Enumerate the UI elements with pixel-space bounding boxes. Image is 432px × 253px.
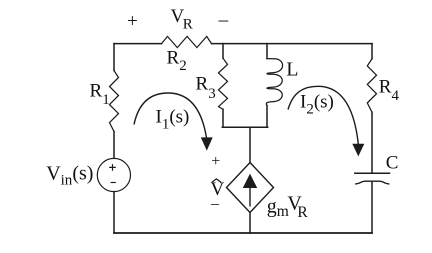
- current arrow I1(s) arc: [134, 93, 207, 139]
- wire bottom: [114, 232, 372, 234]
- resistor R1: [110, 71, 119, 132]
- wire top-left segment: [114, 43, 162, 45]
- svg-text:R1: R1: [90, 81, 110, 108]
- svg-text:I2(s): I2(s): [300, 92, 334, 118]
- wire top-right segment: [212, 43, 373, 45]
- svg-text:+: +: [211, 153, 220, 170]
- current arrow I1(s) arrowhead: [201, 137, 213, 150]
- wire stem bar to dependent source: [249, 127, 251, 162]
- wire right-mid (R4 to capacitor): [371, 112, 373, 173]
- resistor R2: [162, 36, 212, 47]
- svg-text:C: C: [386, 153, 399, 174]
- resistor R3: [219, 58, 228, 109]
- current arrow I2(s) arrowhead: [352, 144, 364, 157]
- wire R3 branch bottom (R3 to bar): [222, 109, 224, 127]
- wire L branch top (junction to coil): [266, 44, 268, 59]
- source Vin circle: [97, 158, 130, 191]
- capacitor C bottom curved plate: [356, 181, 389, 184]
- current arrow I2(s) arc: [288, 86, 358, 145]
- svg-text:Vin(s): Vin(s): [46, 163, 93, 189]
- wire left-mid (R1 to Vin source): [113, 132, 115, 159]
- inductor L: [266, 59, 282, 106]
- svg-text:VR: VR: [171, 6, 193, 33]
- svg-text:R3: R3: [196, 74, 216, 103]
- Vin minus mark: [111, 182, 115, 184]
- svg-text:L: L: [286, 58, 298, 80]
- svg-text:–: –: [210, 196, 220, 213]
- svg-text:+: +: [127, 11, 138, 32]
- Vin plus mark: [110, 165, 115, 170]
- dependent source arrow: [244, 175, 256, 206]
- svg-text:R2: R2: [167, 48, 187, 74]
- wire bar under R3 and L: [222, 126, 267, 128]
- capacitor C top plate: [355, 172, 390, 174]
- resistor R4: [367, 59, 376, 112]
- wire left-top (top corner to R1): [113, 44, 115, 71]
- wire stem dependent source to bottom: [249, 213, 251, 234]
- wire left-bottom (Vin to bottom): [113, 192, 115, 233]
- dependent source U1 diamond: [227, 163, 274, 213]
- wire L branch bottom (coil to bar): [266, 106, 268, 128]
- wire R3 branch top (junction to R3): [222, 44, 224, 59]
- svg-text:R4: R4: [379, 77, 400, 104]
- svg-text:I1(s): I1(s): [156, 107, 190, 133]
- svg-text:–: –: [218, 9, 229, 30]
- wire right-top (top corner to R4): [371, 44, 373, 59]
- svg-text:gmVR: gmVR: [267, 192, 309, 221]
- wire right-bottom (capacitor to bottom): [371, 182, 373, 234]
